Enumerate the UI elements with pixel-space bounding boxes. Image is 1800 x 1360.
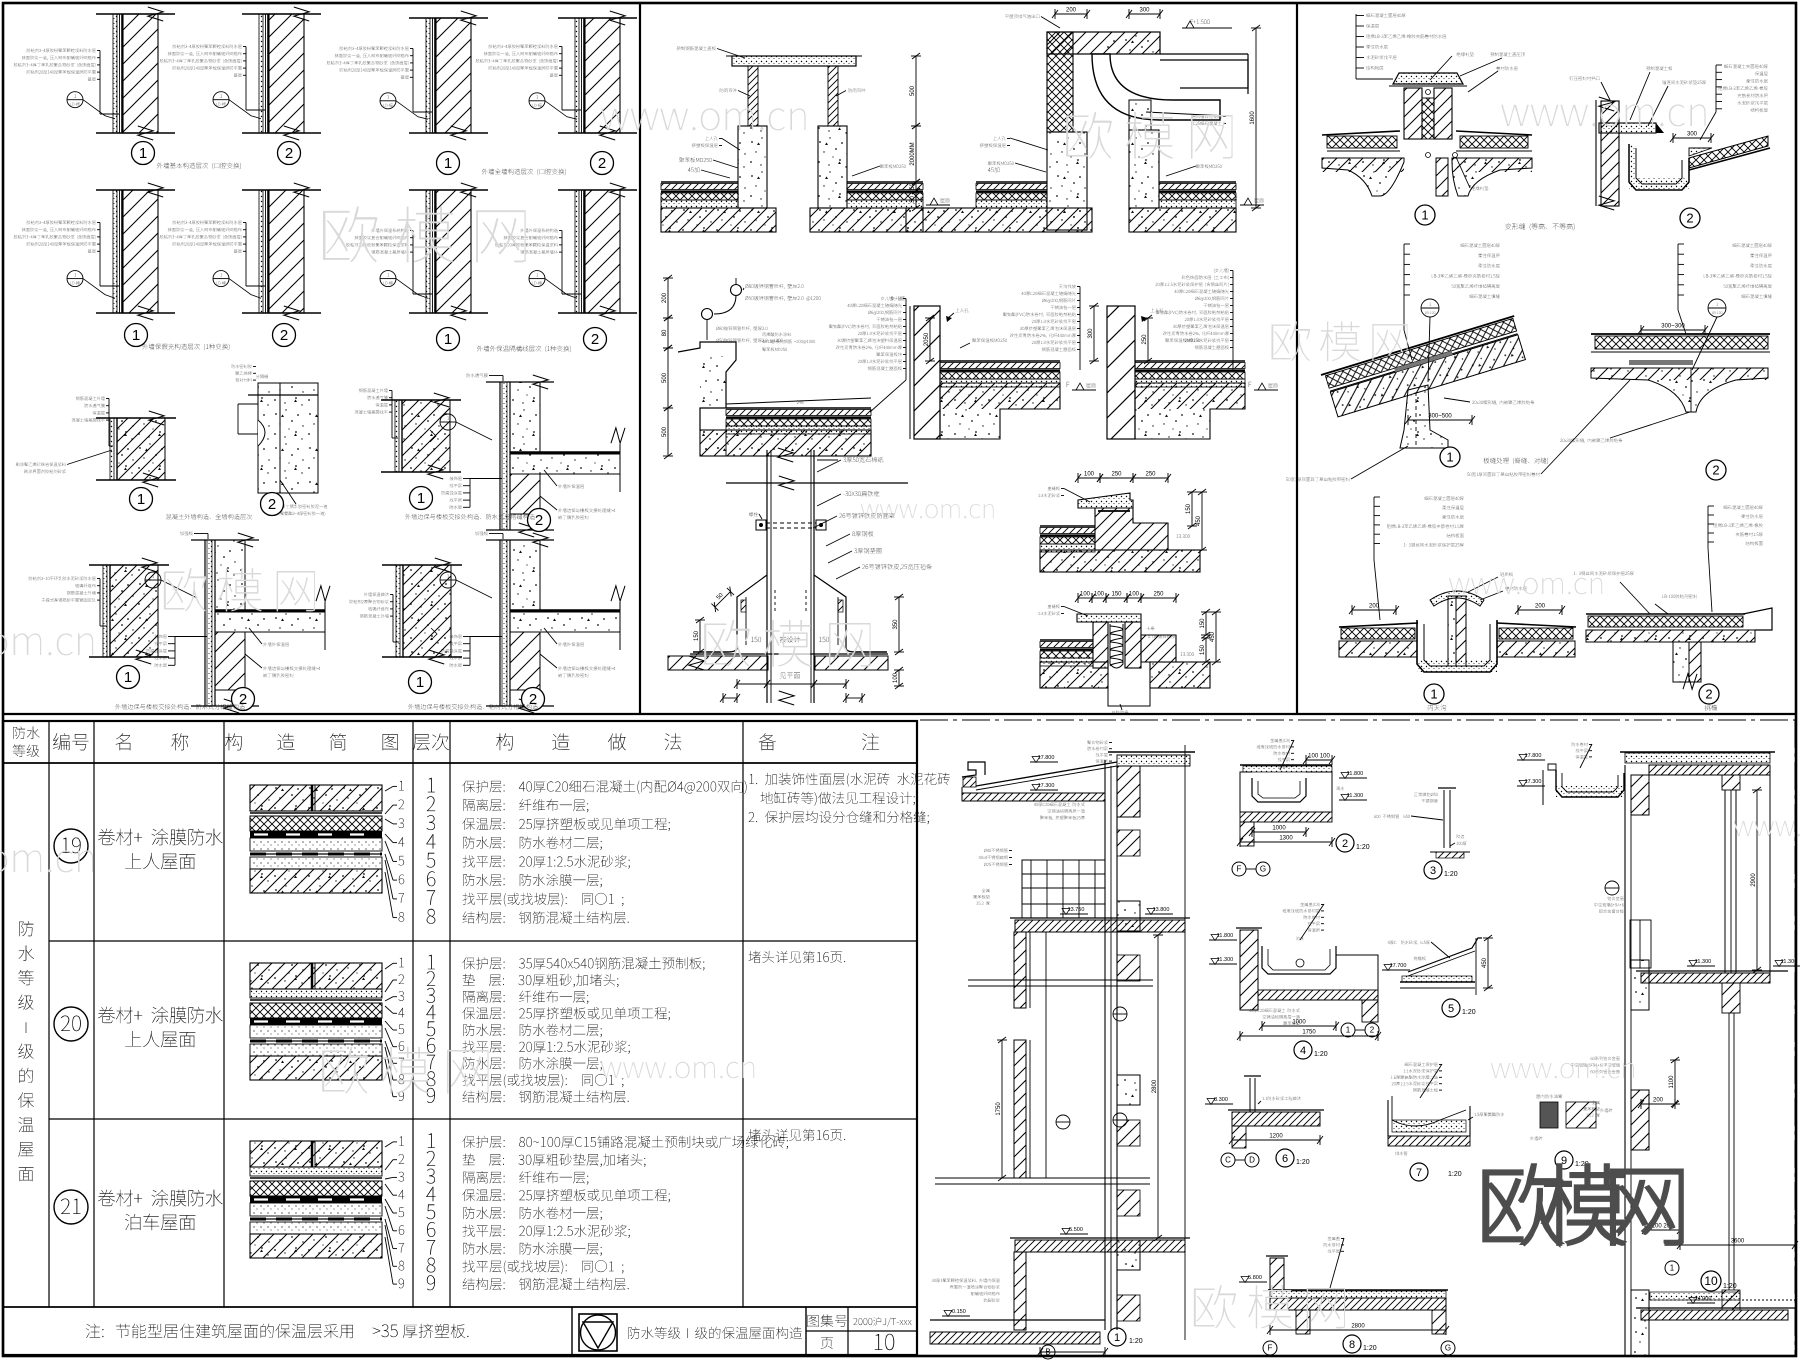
- svg-text:1:20: 1:20: [1448, 1171, 1462, 1178]
- detail 9 legend: [1540, 1102, 1558, 1128]
- R1 joint upstands: [1404, 88, 1422, 139]
- svg-text:1: 1: [132, 327, 140, 344]
- watermark light 13: [601, 1062, 754, 1079]
- svg-text:200: 200: [1066, 8, 1077, 14]
- svg-text:2: 2: [268, 496, 276, 513]
- svg-text:150: 150: [694, 630, 700, 641]
- wall detail 4-1: [89, 564, 169, 566]
- svg-text:100 100: 100 100: [1308, 754, 1330, 760]
- svg-text:1: 1: [1346, 1026, 1351, 1035]
- ridge seam detail R3: [1321, 316, 1527, 418]
- table row 19 layer leaders: [399, 781, 404, 790]
- panel divider left/middle: [639, 3, 641, 714]
- table row 19 method text: [462, 780, 746, 794]
- watermark light 3: [0, 633, 93, 655]
- R5 annotation block: [1424, 496, 1463, 500]
- section A break lines mid: [968, 979, 1153, 981]
- M3 left dims: [667, 278, 669, 318]
- wall section detail 1-3: [409, 17, 488, 19]
- table row 21 name: [98, 1190, 223, 1207]
- watermark light 15: [1734, 821, 1800, 836]
- detail 5 sloped eave: [1408, 938, 1482, 972]
- svg-text:14.000: 14.000: [1695, 1296, 1712, 1302]
- table row 19 level numbers: [428, 778, 435, 793]
- svg-text:11.300: 11.300: [1781, 959, 1797, 965]
- M6 flashing cone: [737, 575, 846, 648]
- svg-text:2: 2: [1342, 838, 1348, 850]
- M1 roof layers right: [847, 181, 923, 183]
- svg-text:4: 4: [1300, 1045, 1306, 1057]
- watermark light 2: [601, 108, 805, 130]
- M5 roof layers: [1135, 360, 1245, 362]
- detail 4-3 number: [409, 671, 432, 694]
- svg-text:300: 300: [1088, 328, 1094, 339]
- svg-text:1000: 1000: [1272, 826, 1286, 832]
- section B right edge: [1769, 765, 1771, 980]
- svg-text:300: 300: [1139, 8, 1150, 14]
- svg-text:3600: 3600: [1731, 1239, 1745, 1245]
- expansion joint detail M7: [1078, 477, 1100, 479]
- panel divider middle/right: [1296, 3, 1298, 714]
- construction boundary dash-dot top: [920, 719, 1795, 721]
- M1 left curb: [738, 126, 767, 208]
- detail 4 roof gutter: [1300, 902, 1319, 906]
- table header row line: [3, 762, 917, 764]
- svg-text:1750: 1750: [996, 1102, 1002, 1116]
- R5 gutter U: [1417, 620, 1497, 672]
- watermark light 14: [1491, 1063, 1634, 1078]
- M1 base slab: [661, 208, 776, 232]
- panel bottom divider: [3, 713, 1796, 715]
- wall-roof junction detail M4: [914, 306, 940, 439]
- section B left wall: [1624, 765, 1626, 1356]
- table row 20 layer leaders: [399, 958, 404, 967]
- watermark light 10: [1449, 578, 1602, 595]
- detail 3-1 number: [130, 488, 153, 511]
- svg-text:1: 1: [1430, 687, 1437, 702]
- detail 2 number: [1336, 834, 1354, 852]
- section A railing: [1022, 860, 1105, 904]
- R5 number: [1424, 684, 1444, 704]
- svg-text:F: F: [1268, 1344, 1273, 1353]
- detail 3-3 number: [410, 487, 433, 510]
- svg-text:250: 250: [1142, 334, 1148, 345]
- svg-text:6: 6: [1282, 1153, 1288, 1165]
- table row 19 remark: [749, 773, 950, 787]
- svg-text:5.800: 5.800: [1248, 1275, 1262, 1281]
- detail 1-3 number: [437, 152, 460, 175]
- svg-text:2800: 2800: [1351, 1324, 1365, 1330]
- caption row2 right: [477, 346, 571, 353]
- svg-text:150: 150: [1186, 503, 1192, 514]
- R4 dim: [1641, 329, 1705, 331]
- internal gutter detail R5: [1339, 623, 1418, 627]
- section A bottom bubbles: [1041, 1345, 1055, 1359]
- M3 railing pipes: [731, 285, 742, 296]
- svg-text:11.300: 11.300: [1217, 957, 1233, 963]
- svg-text:300~500: 300~500: [1428, 414, 1452, 420]
- watermark light 1: [323, 207, 526, 263]
- M1 right curb: [818, 126, 847, 208]
- R6 annotation block: [1723, 505, 1762, 509]
- detail 3-2 number: [261, 493, 284, 516]
- R5 labels: [1500, 572, 1513, 576]
- svg-text:2050: 2050: [924, 332, 930, 346]
- R1 top labels: [1457, 52, 1474, 56]
- svg-text:11.300: 11.300: [1347, 793, 1363, 799]
- R6 labels: [1574, 571, 1634, 575]
- roof vent curb detail M1: [732, 56, 856, 66]
- svg-text:2: 2: [239, 691, 247, 708]
- table note row text: [86, 1324, 104, 1338]
- title block title text: [628, 1327, 802, 1339]
- table header texts: [13, 726, 39, 739]
- section A floor slab 1: [1015, 920, 1185, 932]
- wall detail 3-3: [381, 399, 461, 401]
- svg-text:450: 450: [1482, 957, 1488, 968]
- section A main wall: [1104, 760, 1106, 1330]
- svg-text:2900: 2900: [1751, 873, 1757, 887]
- svg-text:-0.150: -0.150: [950, 1309, 966, 1315]
- svg-text:8: 8: [1349, 1339, 1355, 1351]
- R1/R2 caption: [1505, 223, 1574, 230]
- svg-text:2: 2: [535, 512, 543, 529]
- section A wall hatch patches: [1117, 830, 1140, 856]
- corner junction detail 4-2: [204, 540, 206, 706]
- svg-text:1000: 1000: [1292, 1020, 1306, 1026]
- section A section-cut circles: [1056, 1115, 1070, 1129]
- detail 3 wall cap: [1443, 790, 1445, 848]
- title block logo cell line: [571, 1307, 573, 1355]
- svg-text:13.800: 13.800: [1153, 907, 1170, 913]
- svg-text:1: 1: [444, 155, 452, 172]
- M6 texts: [780, 636, 800, 642]
- M6 leader labels right: [843, 457, 883, 463]
- svg-text:B: B: [1045, 1348, 1050, 1357]
- svg-text:500: 500: [910, 85, 916, 96]
- M2 base slab: [906, 208, 1092, 232]
- wall detail 4-3: [382, 564, 462, 566]
- M4 annotations: [1059, 284, 1076, 288]
- svg-text:500: 500: [662, 372, 668, 383]
- M1 F level: [921, 197, 924, 202]
- M1 roof layers left: [661, 181, 738, 183]
- svg-text:1:20: 1:20: [1723, 1283, 1737, 1290]
- M3 pipe labels: [745, 284, 803, 289]
- M4 F level: [1067, 382, 1070, 387]
- table row divider 19/20: [49, 940, 917, 942]
- detail 4-2 number: [232, 688, 255, 711]
- svg-text:450: 450: [1196, 515, 1202, 526]
- svg-text:1750: 1750: [1302, 1030, 1316, 1036]
- svg-text:17.800: 17.800: [1525, 753, 1542, 759]
- corner junction detail 4-4: [499, 540, 501, 706]
- detail 2-3 number: [437, 328, 460, 351]
- section A leader block top: [1087, 741, 1108, 745]
- deformation joint detail R1 (equal height): [1393, 73, 1463, 84]
- watermark light 8: [861, 504, 994, 518]
- section A number: [1108, 1328, 1126, 1346]
- svg-text:1:20: 1:20: [1129, 1338, 1143, 1345]
- concrete wall detail 3-1: [96, 417, 176, 419]
- wall-roof junction detail M5: [1107, 306, 1135, 439]
- M3 annotations right block: [881, 296, 902, 300]
- svg-text:11.300: 11.300: [1695, 959, 1711, 965]
- R5 right roof layers: [1497, 623, 1576, 627]
- table row 20 number circle: [54, 1007, 88, 1041]
- M2 small concrete block: [1129, 100, 1151, 130]
- R1 bottom label: [1471, 186, 1488, 190]
- table row 21 number circle: [54, 1190, 88, 1224]
- M6 roof slab: [690, 653, 888, 655]
- caption row4 left: [115, 704, 245, 710]
- M4 base slab notch: [940, 383, 1060, 439]
- svg-text:1: 1: [139, 145, 147, 162]
- detail 8 number: [1343, 1335, 1361, 1353]
- construction boundary dash-dot right: [1794, 720, 1796, 1356]
- svg-text:30: 30: [910, 196, 916, 203]
- svg-text:150: 150: [1111, 592, 1122, 598]
- M2 roof layers: [976, 181, 1047, 183]
- svg-text:3: 3: [1430, 865, 1436, 877]
- detail 2-4 number: [584, 328, 607, 351]
- section A wall mid segment: [1014, 1040, 1026, 1178]
- R4 LB-100 marker: [1708, 299, 1726, 317]
- M2 annotations: [1005, 14, 1039, 18]
- detail 4-1 number: [117, 666, 140, 689]
- svg-text:1: 1: [416, 674, 424, 691]
- R6 number: [1699, 684, 1719, 704]
- R1 number: [1415, 205, 1435, 225]
- R1 annotation block: [1366, 13, 1405, 17]
- table row 20 level numbers: [428, 955, 435, 970]
- svg-text:250: 250: [1145, 472, 1156, 478]
- svg-text:450: 450: [1210, 631, 1216, 642]
- svg-text:8.300: 8.300: [1214, 1097, 1228, 1103]
- R2 right slope insulation: [1689, 136, 1768, 168]
- watermark dark big: [1484, 1165, 1682, 1244]
- construction boundary dash-dot bottom: [920, 1355, 1795, 1357]
- svg-text:2: 2: [1686, 211, 1693, 226]
- svg-text:1:20: 1:20: [1296, 1159, 1310, 1166]
- caption row2 left: [142, 344, 229, 351]
- svg-text:G: G: [1260, 865, 1266, 874]
- svg-text:1:20: 1:20: [1444, 871, 1458, 878]
- svg-text:1200: 1200: [1269, 1134, 1283, 1140]
- R3/R4 caption: [1483, 458, 1548, 465]
- detail 3-4 number: [528, 509, 551, 532]
- svg-text:2800: 2800: [1152, 1079, 1158, 1093]
- svg-text:D: D: [1249, 1156, 1255, 1165]
- deformation joint detail R2 (unequal height): [1595, 100, 1597, 206]
- svg-text:200: 200: [662, 292, 668, 303]
- table note row divider: [3, 1306, 917, 1308]
- svg-text:11.800: 11.800: [1347, 771, 1363, 777]
- title block logo: [579, 1314, 617, 1351]
- caption row1 right: [482, 169, 566, 176]
- svg-text:1600: 1600: [1250, 111, 1256, 125]
- table row 21 layer leaders: [399, 1136, 404, 1145]
- caption row4 right: [408, 704, 538, 710]
- svg-text:1: 1: [124, 669, 132, 686]
- detail 6 balcony slab: [1249, 1078, 1251, 1112]
- svg-text:1:20: 1:20: [1314, 1051, 1328, 1058]
- R1 roof layers right: [1456, 131, 1532, 135]
- M6 pipe: [766, 450, 768, 703]
- section A floor slab 2: [1015, 1240, 1185, 1252]
- svg-text:150: 150: [1200, 618, 1206, 629]
- detail 10 number: [1701, 1271, 1721, 1291]
- watermark light 7: [704, 620, 870, 667]
- R5 center pipe: [1448, 596, 1456, 666]
- detail 7 planter terrace: [1405, 1063, 1438, 1067]
- detail 2-1 number: [125, 324, 148, 347]
- eave gutter detail M3: [678, 342, 736, 430]
- table row 21 level numbers: [428, 1133, 435, 1148]
- M2 F level: [1235, 197, 1238, 202]
- wall section detail 2-4: [558, 189, 637, 191]
- table row 21 remark: [749, 1129, 846, 1141]
- svg-text:100: 100: [1094, 592, 1105, 598]
- svg-text:200: 200: [1653, 1098, 1664, 1104]
- expansion joint detail M8: [1078, 597, 1092, 599]
- R2 dim: [1673, 137, 1711, 139]
- section A inner face line: [1045, 932, 1047, 1178]
- section B dims bottom: [1641, 1103, 1675, 1105]
- svg-text:2: 2: [285, 145, 293, 162]
- detail 5 number: [1442, 999, 1460, 1017]
- svg-text:200: 200: [1535, 604, 1546, 610]
- section B roof: [1620, 751, 1775, 753]
- svg-text:17.800: 17.800: [1038, 755, 1055, 761]
- detail 6 number: [1276, 1149, 1294, 1167]
- detail 2 balcony gutter: [1240, 764, 1332, 766]
- section A interior dim line: [1157, 935, 1159, 1238]
- wall section detail 2-3: [409, 189, 488, 191]
- R4 slab with curved soffit: [1591, 368, 1768, 412]
- R6 caption: [1705, 705, 1717, 711]
- section B mid slab: [1641, 973, 1770, 983]
- svg-text:10: 10: [1704, 1274, 1718, 1288]
- caption row3 right: [405, 514, 535, 520]
- M3 roof layers: [726, 407, 871, 409]
- M2 right curb: [1129, 130, 1159, 208]
- R5 ridge cap: [1430, 591, 1484, 606]
- svg-text:150: 150: [1200, 644, 1206, 655]
- svg-text:50: 50: [910, 183, 916, 190]
- svg-text:C: C: [1225, 1156, 1231, 1165]
- table outer border: [3, 721, 917, 1355]
- R6 wall below: [1673, 642, 1689, 682]
- detail 4 number: [1294, 1041, 1312, 1059]
- title block cells: [805, 1307, 807, 1355]
- svg-text:17.700: 17.700: [1390, 963, 1407, 969]
- svg-text:1300: 1300: [1279, 836, 1293, 842]
- detail 2-2 number: [273, 324, 296, 347]
- svg-text:100: 100: [1080, 592, 1091, 598]
- M3 small labels: [762, 333, 791, 337]
- wall section detail 1-4: [558, 17, 637, 19]
- svg-text:100: 100: [1084, 472, 1095, 478]
- svg-text:1: 1: [1446, 450, 1453, 465]
- svg-text:250: 250: [1111, 472, 1122, 478]
- table row 20 remark: [749, 951, 846, 963]
- watermark light 4: [1066, 112, 1232, 159]
- table waterproof grade vertical text: [19, 921, 33, 936]
- pipe penetration detail M6: [726, 482, 908, 484]
- svg-text:100: 100: [893, 672, 899, 683]
- svg-text:2: 2: [591, 331, 599, 348]
- wall section detail 2-1: [96, 189, 175, 191]
- M1 dimension lines: [915, 56, 917, 126]
- svg-text:300~300: 300~300: [1661, 324, 1685, 330]
- svg-text:1:20: 1:20: [1356, 844, 1370, 851]
- flat seam detail R4: [1591, 333, 1770, 335]
- R5 caption: [1428, 705, 1446, 711]
- table row 19 number circle: [54, 829, 88, 863]
- R3 annotation block: [1460, 243, 1499, 247]
- R2 labels: [1569, 76, 1599, 80]
- svg-text:100: 100: [1129, 592, 1140, 598]
- R3 T-beam: [1400, 385, 1448, 448]
- table row 20 name: [98, 1007, 223, 1024]
- svg-text:2: 2: [598, 155, 606, 172]
- R4 labels: [1560, 438, 1622, 442]
- overhang eave detail R6: [1586, 613, 1745, 615]
- R4 number: [1706, 460, 1726, 480]
- detail 1-1 number: [132, 142, 155, 165]
- watermark light 16: [1194, 1285, 1345, 1328]
- section A ground: [930, 1319, 1105, 1321]
- R1 joint wall below: [1436, 158, 1448, 196]
- section A roof layers right: [1117, 755, 1190, 766]
- svg-text:5: 5: [1448, 1003, 1454, 1015]
- R2 annotation block: [1724, 64, 1768, 68]
- svg-text:1: 1: [417, 490, 425, 507]
- svg-text:1: 1: [444, 331, 452, 348]
- svg-text:11.800: 11.800: [1217, 933, 1233, 939]
- svg-text:1:20: 1:20: [1462, 1009, 1476, 1016]
- R4 annotation block: [1732, 243, 1771, 247]
- svg-text:2000MM: 2000MM: [910, 142, 916, 165]
- detail 1-2 number: [278, 142, 301, 165]
- svg-text:17.300: 17.300: [1525, 779, 1542, 785]
- R3 labels: [1472, 400, 1534, 404]
- R3 number: [1440, 447, 1460, 467]
- svg-text:500: 500: [662, 426, 668, 437]
- detail 1-4 number: [591, 152, 614, 175]
- table row 20 method text: [462, 957, 704, 971]
- table row 21 layer diagram: [250, 1141, 382, 1167]
- svg-text:250: 250: [1153, 592, 1164, 598]
- table row 20 layer diagram: [250, 963, 382, 989]
- table row 19 name: [98, 829, 223, 846]
- svg-text:1:20: 1:20: [1363, 1345, 1377, 1352]
- detail 3 number: [1424, 861, 1442, 879]
- section A axis line: [1184, 745, 1186, 1340]
- corner junction detail 3-4: [499, 382, 501, 530]
- table row 21 method text: [462, 1136, 788, 1150]
- R2 cap slab: [1599, 123, 1656, 133]
- svg-text:2: 2: [280, 327, 288, 344]
- wall section detail 1-2: [242, 13, 321, 15]
- section B lower slab: [1641, 1310, 1788, 1320]
- R2 gutter: [1629, 144, 1689, 190]
- svg-text:F: F: [1237, 865, 1242, 874]
- M5 base slab: [1135, 383, 1245, 439]
- detail 2 grid bubbles: [1232, 862, 1246, 876]
- svg-text:2: 2: [529, 691, 537, 708]
